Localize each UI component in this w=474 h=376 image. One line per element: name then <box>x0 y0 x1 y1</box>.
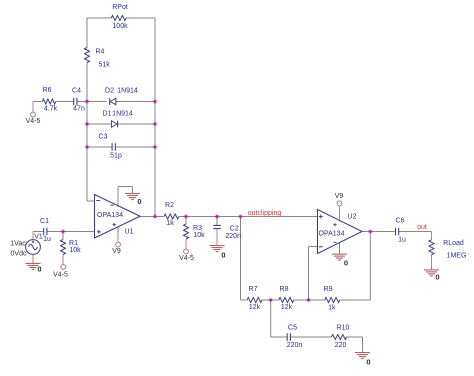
svg-text:U1: U1 <box>125 229 134 236</box>
svg-text:R3: R3 <box>193 225 202 232</box>
svg-text:OPA134: OPA134 <box>319 231 345 238</box>
svg-text:R4: R4 <box>96 49 105 56</box>
svg-text:RPot: RPot <box>112 4 128 11</box>
svg-text:220n: 220n <box>287 342 303 349</box>
svg-text:1k: 1k <box>166 220 174 227</box>
svg-text:R2: R2 <box>165 202 174 209</box>
svg-text:V1: V1 <box>34 234 43 241</box>
svg-text:1Vac: 1Vac <box>10 241 26 248</box>
svg-text:V4-5: V4-5 <box>53 272 68 279</box>
svg-text:0: 0 <box>366 358 370 367</box>
svg-text:R1: R1 <box>69 240 78 247</box>
svg-text:R6: R6 <box>43 87 52 94</box>
svg-text:0: 0 <box>37 265 41 274</box>
svg-text:RLoad: RLoad <box>443 240 464 247</box>
svg-text:outclipping: outclipping <box>248 210 282 217</box>
svg-text:out: out <box>417 224 427 231</box>
svg-text:0: 0 <box>137 197 141 206</box>
svg-text:V9: V9 <box>335 193 344 200</box>
svg-text:100k: 100k <box>112 23 128 30</box>
svg-text:U2: U2 <box>348 214 357 221</box>
svg-text:51k: 51k <box>99 62 111 69</box>
svg-text:D2: D2 <box>105 88 114 95</box>
svg-text:R9: R9 <box>324 286 333 293</box>
svg-text:C2: C2 <box>230 226 239 233</box>
svg-text:0: 0 <box>344 258 348 267</box>
svg-text:R8: R8 <box>280 286 289 293</box>
svg-text:0: 0 <box>435 273 439 282</box>
svg-text:1N914: 1N914 <box>117 88 138 95</box>
svg-text:V9: V9 <box>112 248 121 255</box>
svg-text:1u: 1u <box>398 237 406 244</box>
svg-text:1u: 1u <box>43 236 51 243</box>
svg-text:12k: 12k <box>281 304 293 311</box>
svg-text:1N914: 1N914 <box>112 110 133 117</box>
svg-text:R7: R7 <box>249 286 258 293</box>
svg-text:C5: C5 <box>288 325 297 332</box>
svg-text:51p: 51p <box>110 153 122 160</box>
svg-text:47n: 47n <box>73 106 85 113</box>
svg-text:220n: 220n <box>225 233 241 240</box>
svg-text:OPA134: OPA134 <box>97 212 123 219</box>
svg-text:4.7k: 4.7k <box>44 106 58 113</box>
svg-text:12k: 12k <box>249 304 261 311</box>
svg-text:1MEG: 1MEG <box>447 253 467 260</box>
svg-text:V4-5: V4-5 <box>179 255 194 262</box>
svg-text:R10: R10 <box>337 325 350 332</box>
svg-text:V4-5: V4-5 <box>26 118 41 125</box>
svg-text:10k: 10k <box>69 247 81 254</box>
svg-text:1k: 1k <box>328 304 336 311</box>
svg-text:C6: C6 <box>396 218 405 225</box>
svg-text:10k: 10k <box>193 232 205 239</box>
svg-text:C1: C1 <box>40 218 49 225</box>
svg-text:220: 220 <box>335 342 347 349</box>
svg-text:C3: C3 <box>99 134 108 141</box>
svg-text:0: 0 <box>221 251 225 260</box>
svg-text:D1: D1 <box>103 110 112 117</box>
svg-text:0Vdc: 0Vdc <box>11 251 27 258</box>
svg-text:C4: C4 <box>72 88 81 95</box>
